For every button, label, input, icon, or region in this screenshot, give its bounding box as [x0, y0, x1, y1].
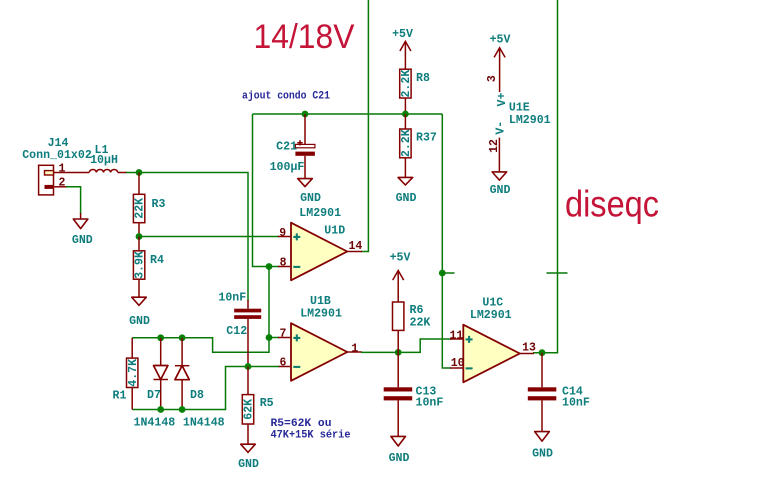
svg-text:3.9K: 3.9K — [134, 251, 147, 279]
svg-text:C21: C21 — [276, 141, 297, 154]
svg-text:D8: D8 — [190, 389, 204, 402]
ground C14 — [532, 432, 553, 461]
node D7 bottom — [157, 406, 164, 413]
resistor R8 — [400, 69, 430, 114]
svg-text:R5=62K ou: R5=62K ou — [271, 418, 332, 430]
ground R4 — [129, 297, 150, 328]
wire U1B output to R6 junction and U1C pin11 — [361, 339, 452, 352]
diode D8 — [175, 338, 225, 430]
wire U1C output vertical net — [533, 0, 558, 353]
svg-text:LM2901: LM2901 — [300, 308, 342, 321]
resistor R5 — [242, 367, 273, 445]
capacitor C12 — [218, 292, 261, 367]
pin 10 U1C — [450, 357, 465, 370]
svg-text:22K: 22K — [134, 198, 147, 219]
svg-text:1: 1 — [351, 342, 358, 355]
svg-text:+5V: +5V — [490, 34, 511, 47]
ground C21 — [298, 179, 321, 205]
pin 11 U1C — [449, 329, 463, 342]
wire pin8 junction down to pin7 and rail — [132, 267, 269, 353]
svg-text:1: 1 — [59, 163, 66, 176]
svg-text:100µF: 100µF — [270, 161, 305, 174]
pin 9 U1D — [278, 227, 291, 240]
svg-text:+5V: +5V — [392, 28, 413, 41]
pin 7 U1B — [278, 327, 291, 340]
svg-text:GND: GND — [389, 452, 410, 465]
capacitor C21 — [270, 114, 315, 179]
power +5V above U1E — [490, 34, 511, 58]
pin 6 U1B — [278, 356, 291, 369]
svg-text:V+: V+ — [496, 93, 509, 107]
op-amp U1E power unit — [486, 48, 550, 172]
svg-text:22K: 22K — [410, 317, 431, 330]
svg-text:9: 9 — [279, 227, 286, 240]
node L1/R3 junction — [136, 169, 143, 176]
svg-text:10nF: 10nF — [562, 397, 590, 410]
svg-text:1N4148: 1N4148 — [183, 417, 225, 430]
svg-text:D7: D7 — [147, 389, 161, 402]
ground R37 — [396, 177, 417, 205]
svg-text:ajout condo C21: ajout condo C21 — [242, 91, 330, 103]
svg-text:11: 11 — [449, 329, 463, 342]
connector J14 — [22, 137, 92, 195]
svg-text:R1: R1 — [113, 390, 127, 403]
svg-text:GND: GND — [396, 192, 417, 205]
node R5/C12/pin6 junction — [245, 363, 252, 370]
ground U1E — [490, 172, 511, 197]
pin 1 J14 — [54, 163, 90, 176]
op-amp U1C — [463, 297, 520, 383]
node U1D pin8 junction — [266, 263, 273, 270]
svg-text:LM2901: LM2901 — [470, 309, 512, 322]
svg-text:LM2901: LM2901 — [299, 207, 341, 220]
node R8/R37 junction — [402, 111, 409, 118]
resistor R6 — [393, 271, 431, 353]
svg-text:Conn_01x02: Conn_01x02 — [22, 149, 92, 162]
svg-text:10nF: 10nF — [416, 397, 444, 410]
wire L1 to C12 top — [126, 173, 248, 302]
svg-text:GND: GND — [72, 234, 93, 247]
node D8 bottom — [179, 406, 186, 413]
pin 2 J14 — [54, 177, 68, 190]
svg-text:1N4148: 1N4148 — [134, 417, 176, 430]
svg-text:R37: R37 — [416, 132, 437, 145]
svg-text:GND: GND — [490, 184, 511, 197]
resistor R4 — [133, 237, 164, 298]
node R3/R4/pin9 junction — [136, 233, 143, 240]
svg-text:R5: R5 — [260, 397, 274, 410]
svg-text:GND: GND — [238, 458, 259, 471]
svg-text:2: 2 — [59, 177, 66, 190]
svg-text:8: 8 — [280, 256, 287, 269]
power +5V above R8 — [392, 28, 413, 69]
svg-text:6: 6 — [280, 356, 287, 369]
op-amp U1D — [291, 207, 347, 280]
node U1B pin7 junction — [266, 334, 273, 341]
svg-text:C12: C12 — [226, 325, 247, 338]
diode D7 — [134, 338, 176, 430]
resistor R1 — [113, 338, 140, 410]
wire to U1B pin 7 — [269, 337, 279, 339]
wire bus right end down to U1C pin10 — [442, 114, 451, 368]
svg-text:14/18V: 14/18V — [254, 18, 355, 56]
wire top bus 14/18V net — [253, 113, 443, 115]
svg-text:+5V: +5V — [390, 252, 411, 265]
svg-text:diseqc: diseqc — [565, 184, 659, 225]
svg-text:U1E: U1E — [509, 102, 530, 115]
svg-text:13: 13 — [522, 342, 536, 355]
wire long vertical net to U1D output — [361, 0, 368, 252]
resistor R3 — [133, 173, 165, 237]
svg-text:10nF: 10nF — [218, 292, 246, 305]
svg-text:U1C: U1C — [482, 297, 503, 310]
svg-text:GND: GND — [532, 448, 553, 461]
wire to U1D pin 9 — [139, 236, 279, 238]
op-amp U1B — [291, 295, 347, 381]
ground J14 — [72, 213, 93, 247]
node D8 top — [179, 334, 186, 341]
svg-text:V-: V- — [495, 121, 508, 135]
power +5V above R6 — [390, 252, 411, 281]
node D7 top — [157, 334, 164, 341]
capacitor C14 — [528, 353, 590, 432]
wire diode network bottom rail to pin 6 — [132, 367, 279, 410]
resistor R37 — [400, 114, 437, 177]
capacitor C13 — [384, 352, 444, 436]
svg-text:10µH: 10µH — [90, 154, 118, 167]
svg-text:U1D: U1D — [324, 225, 345, 238]
svg-text:GND: GND — [300, 192, 321, 205]
pin 1 U1B output — [347, 342, 362, 355]
svg-text:R3: R3 — [152, 198, 166, 211]
svg-text:7: 7 — [280, 327, 287, 340]
svg-text:2.2K: 2.2K — [400, 70, 413, 98]
ground C13 — [389, 436, 410, 465]
svg-text:3: 3 — [486, 75, 499, 82]
wire vertical down to U1D pin8 elbow — [253, 114, 280, 267]
ground R5 — [238, 444, 259, 471]
wire stub right of junction — [442, 272, 454, 274]
node C21 junction — [302, 111, 309, 118]
svg-text:4.7K: 4.7K — [127, 359, 140, 387]
svg-text:2.2K: 2.2K — [400, 129, 413, 157]
svg-text:R6: R6 — [410, 304, 424, 317]
svg-text:R4: R4 — [150, 254, 164, 267]
pin 14 U1D output — [347, 240, 362, 253]
svg-text:47K+15K série: 47K+15K série — [271, 430, 351, 442]
inductor L1 — [89, 144, 127, 173]
pin 13 U1C output — [520, 342, 536, 355]
pin 8 U1D — [278, 256, 291, 269]
wire J14 pin2 to GND — [66, 187, 81, 214]
svg-text:U1B: U1B — [310, 295, 331, 308]
svg-text:LM2901: LM2901 — [509, 114, 551, 127]
svg-text:R8: R8 — [416, 72, 430, 85]
wire tick crossing output net — [547, 272, 568, 274]
svg-text:GND: GND — [129, 315, 150, 328]
svg-text:62K: 62K — [243, 399, 256, 420]
node R6/U1B output junction — [395, 349, 402, 356]
node junction on vertical — [439, 270, 446, 277]
node U1C output junction — [539, 349, 546, 356]
